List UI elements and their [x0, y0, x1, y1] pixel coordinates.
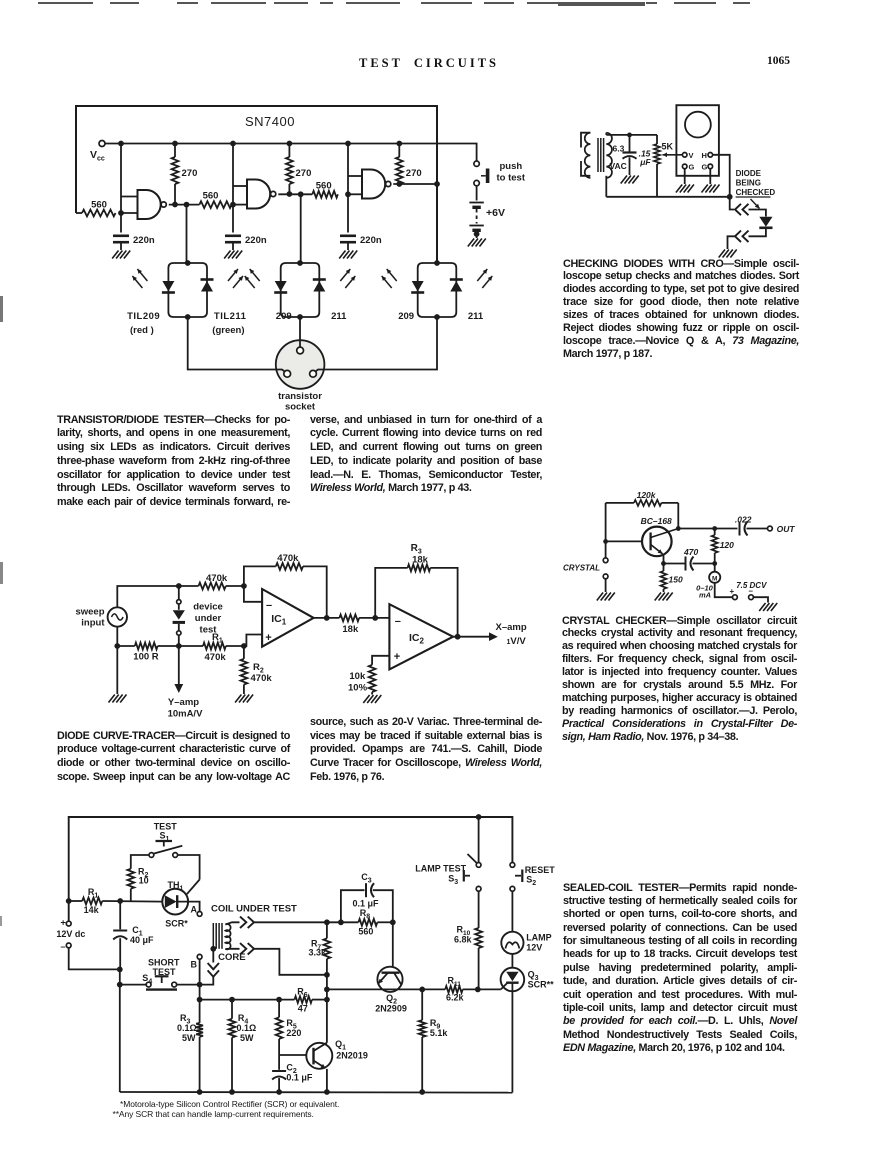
- terminal + 7.5V: [733, 595, 738, 600]
- wire: gate row (R7 to Q3): [327, 988, 445, 990]
- svg-text:V: V: [689, 151, 694, 160]
- node Q1 emitter bottom: [324, 1089, 330, 1095]
- wire: left ground vertical: [119, 969, 121, 1092]
- resistor 18k (series): [339, 615, 359, 622]
- svg-text:+6V: +6V: [486, 207, 505, 219]
- svg-text:150: 150: [669, 575, 683, 585]
- node source bottom: [114, 643, 120, 649]
- LED pair 2 frame: [281, 263, 320, 317]
- wire: S1 to gate: [178, 855, 200, 880]
- crystal test terminals: [603, 558, 608, 563]
- capacitor C1 40uF: [119, 901, 121, 929]
- svg-text:TIL211: TIL211: [214, 311, 247, 322]
- wire: gate1 output to stage2: [169, 204, 200, 206]
- node S4 right / B: [197, 982, 203, 988]
- terminal V: [682, 153, 687, 158]
- socket pin (collector): [310, 370, 317, 377]
- node R4 top: [229, 997, 235, 1003]
- wire: meter to + terminal: [715, 583, 733, 597]
- resistor 470k (input): [199, 583, 226, 590]
- node output divider: [712, 526, 717, 531]
- capacitor .15 uF: [629, 135, 631, 152]
- svg-text:209: 209: [398, 311, 414, 322]
- wire: ground rail (bottom): [120, 1091, 513, 1094]
- svg-text:10%: 10%: [348, 683, 368, 694]
- ground (diode): [719, 250, 725, 258]
- resistor R1 470k: [203, 643, 226, 650]
- node R1/C1/R2: [117, 898, 123, 904]
- wire: to IC1 plus: [244, 635, 262, 647]
- LED 3 emission arrows: [382, 276, 392, 288]
- wire: H to diode node: [713, 155, 730, 197]
- coil winding: [225, 924, 230, 949]
- socket pin (base): [297, 347, 304, 354]
- wire: bus row: [200, 999, 295, 1001]
- svg-text:device: device: [193, 602, 223, 613]
- svg-text:mA: mA: [699, 591, 711, 600]
- svg-text:+: +: [61, 918, 66, 928]
- page number 1065: [767, 55, 790, 67]
- svg-text:X–amp: X–amp: [496, 622, 527, 633]
- node R3 top: [197, 997, 203, 1003]
- node R6 right: [324, 997, 330, 1003]
- transformer T1 primary leads: [581, 133, 590, 148]
- node R8 left: [324, 919, 330, 925]
- svg-text:220n: 220n: [133, 235, 155, 246]
- svg-text:+: +: [394, 651, 400, 663]
- wire: IC2 plus input: [372, 656, 389, 665]
- capacitor C3 0.1uF (top): [341, 890, 365, 922]
- transformer T1 primary winding: [585, 133, 591, 178]
- switch S push-to-test: [474, 161, 479, 166]
- switch S1 TEST: [149, 853, 154, 858]
- ground (source): [109, 695, 115, 703]
- meter M 0-10 mA: [714, 564, 716, 572]
- coil bottom lead + clip: [225, 948, 239, 950]
- svg-text:5W: 5W: [182, 1033, 196, 1043]
- ground (supply): [759, 603, 765, 611]
- caption: sealed-coil tester: [563, 882, 797, 1056]
- wire: left vertical / base node: [605, 503, 607, 558]
- wire: IC2 output / X-amp: [453, 636, 489, 638]
- svg-text:–: –: [395, 616, 401, 628]
- caption: diode curve tracer col1: [57, 730, 290, 785]
- svg-text:12V: 12V: [526, 943, 542, 953]
- node C3 left leg: [338, 919, 344, 925]
- node R5 top: [276, 997, 282, 1003]
- device under test (diode + terminals): [178, 586, 180, 600]
- svg-text:2N2019: 2N2019: [336, 1051, 368, 1061]
- page header: TEST CIRCUITS: [359, 56, 499, 71]
- wire: LED2 to socket: [299, 317, 301, 347]
- node R1 left: [66, 898, 72, 904]
- resistor 270 (stage 2 pull-up): [288, 144, 290, 158]
- node stage1 Vcc tap: [118, 141, 124, 147]
- LED 2 emission arrows: [245, 276, 255, 288]
- caption: transistor/diode tester col1: [57, 414, 290, 510]
- node diode top: [727, 194, 733, 200]
- wire: LED pair 2 drop: [300, 194, 302, 263]
- switch S2 RESET: [510, 863, 515, 868]
- svg-text:5.1k: 5.1k: [430, 1028, 449, 1038]
- svg-text:18k: 18k: [342, 624, 359, 635]
- node R9 bottom: [419, 1089, 425, 1095]
- arrow to diode: [751, 199, 760, 209]
- svg-text:209: 209: [276, 311, 292, 322]
- resistor R3 18k (feedback): [375, 568, 407, 618]
- wire + clip to diode anode: [730, 197, 734, 210]
- svg-text:470k: 470k: [205, 652, 227, 663]
- wire + clip from diode cathode: [749, 229, 766, 237]
- svg-text:SCR**: SCR**: [528, 980, 555, 990]
- node IC1 output: [324, 615, 330, 621]
- svg-text:5K: 5K: [662, 142, 674, 152]
- node DUT bottom / Y-amp: [176, 643, 182, 649]
- wire: LED3 to socket: [315, 317, 437, 372]
- wire: Vcc rail: [105, 144, 477, 161]
- NAND gate 3 (SN7400): [362, 170, 385, 199]
- svg-text:120k: 120k: [637, 490, 657, 500]
- wire: source top to 470k: [117, 586, 198, 607]
- ground (stage 1 cap): [112, 251, 118, 259]
- Y-amp arrow: [178, 646, 180, 685]
- terminal G (right): [708, 164, 713, 169]
- wire: Q1 emitter to rail: [326, 1069, 328, 1092]
- svg-text:BC–168: BC–168: [641, 516, 672, 526]
- resistor R3 0.1ohm 5W: [199, 1000, 201, 1023]
- resistor 10k 10%: [369, 665, 376, 692]
- wire: R8 row: [327, 921, 358, 923]
- shield clip below B: [212, 949, 214, 963]
- LED pair 1 frame: [168, 263, 207, 317]
- resistor R6 47: [295, 996, 313, 1003]
- LED red 2 (209): [275, 281, 287, 292]
- transistor BC-168: [642, 527, 672, 557]
- node R10 bottom: [475, 987, 481, 993]
- svg-text:under: under: [195, 613, 222, 624]
- wire: B down to S4 row: [199, 959, 201, 999]
- svg-text:–: –: [749, 587, 754, 596]
- transformer T1 core: [597, 138, 599, 172]
- svg-text:470: 470: [683, 547, 698, 557]
- wire: gate2 output to stage3: [278, 193, 312, 195]
- svg-text:10k: 10k: [349, 671, 366, 682]
- node R4 bottom: [229, 1089, 235, 1095]
- svg-text:100 R: 100 R: [133, 652, 158, 663]
- wire: R7/collector vertical: [326, 922, 328, 938]
- ground (stage 2 cap): [224, 251, 230, 259]
- svg-text:S2: S2: [526, 875, 536, 888]
- wire: stage 3 input vertical from Vcc rail: [347, 144, 349, 195]
- svg-text:to test: to test: [497, 173, 526, 184]
- terminal + 12V: [66, 921, 71, 926]
- wire: Q1 base: [279, 1054, 306, 1056]
- node C1 bottom: [117, 967, 123, 973]
- svg-text:–: –: [61, 942, 66, 952]
- wire: emitter: [663, 554, 665, 564]
- svg-text:input: input: [81, 618, 105, 629]
- node IC1 plus input: [241, 643, 247, 649]
- terminal - 12V: [66, 943, 71, 948]
- pot wiper arrow: [663, 154, 683, 156]
- svg-text:220n: 220n: [360, 235, 382, 246]
- transistor Q2 2N2909: [392, 922, 394, 967]
- wire: collector: [677, 503, 679, 529]
- svg-text:TEST: TEST: [153, 967, 177, 977]
- svg-text:560: 560: [203, 191, 219, 202]
- LED pair 3 frame: [418, 263, 457, 317]
- resistor R11 6.2k: [445, 986, 463, 993]
- svg-text:560: 560: [316, 181, 332, 192]
- svg-text:1V/V: 1V/V: [507, 636, 527, 647]
- LED green 3 (211): [450, 281, 462, 292]
- node stage2 Vcc tap: [230, 141, 236, 147]
- wire: gate3 output to right rail: [393, 183, 437, 185]
- svg-text:Vcc: Vcc: [90, 149, 105, 163]
- wire: LED1 to socket: [188, 317, 285, 372]
- svg-text:G: G: [689, 163, 695, 172]
- node R3 bottom: [197, 1089, 203, 1095]
- capacitor 220n (stage 2): [232, 205, 234, 233]
- caption: crystal checker: [562, 615, 797, 744]
- svg-text:0.1Ω: 0.1Ω: [177, 1023, 197, 1033]
- lamp 12V: [511, 891, 513, 932]
- socket pin (emitter): [284, 370, 291, 377]
- ground (R2): [235, 695, 241, 703]
- svg-text:Y–amp: Y–amp: [168, 697, 199, 708]
- svg-text:push: push: [500, 161, 523, 172]
- svg-text:CHECKED: CHECKED: [736, 188, 776, 197]
- LED red 1 (TIL209): [162, 281, 174, 292]
- resistor R2 470k: [243, 646, 245, 659]
- wire: minus lead: [69, 948, 120, 970]
- capacitor C2 0.1uF (bottom): [278, 1055, 280, 1070]
- wire: IC1 out: [314, 617, 340, 619]
- svg-text:LAMP TEST: LAMP TEST: [415, 864, 466, 874]
- svg-text:LAMP: LAMP: [526, 933, 552, 943]
- diode being checked: [759, 217, 772, 227]
- ground (stage 3 cap): [339, 251, 345, 259]
- wire: bottom rail: [606, 196, 729, 198]
- resistor R4 0.1ohm 5W: [231, 1000, 233, 1019]
- wire: stage 1 gate input stubs: [121, 196, 138, 198]
- node Q2 base row: [324, 987, 330, 993]
- ground (150): [655, 593, 661, 601]
- svg-text:.022: .022: [735, 515, 752, 525]
- svg-text:14k: 14k: [84, 905, 100, 915]
- ground (10k): [363, 695, 369, 703]
- node IC2 output: [455, 634, 461, 640]
- wire: stage 2 input vertical from Vcc rail: [232, 144, 234, 205]
- capacitor 220n (stage 3): [347, 194, 349, 232]
- terminal - 7.5V: [749, 595, 754, 600]
- svg-text:OUT: OUT: [777, 524, 796, 534]
- svg-text:120: 120: [720, 540, 734, 550]
- ground (scope G right): [702, 185, 708, 193]
- NAND gate 1 (SN7400): [138, 190, 161, 219]
- svg-text:TIL209: TIL209: [127, 311, 160, 322]
- caption: checking diodes with CRO: [563, 258, 799, 361]
- node Vcc terminal: [99, 141, 105, 147]
- resistor R10 6.8k: [478, 891, 480, 928]
- terminal H: [708, 153, 713, 158]
- wire: LED pair 1 drop: [186, 205, 188, 263]
- svg-text:470k: 470k: [206, 573, 228, 584]
- wire: SN7400 feedback box top/left/right: [76, 106, 437, 263]
- resistor R8 560: [358, 919, 377, 926]
- caption: diode curve tracer col2: [310, 716, 542, 785]
- LED green 2 (211): [313, 281, 325, 292]
- wire: stage 2 gate input stubs: [233, 185, 247, 187]
- svg-text:+: +: [265, 632, 271, 644]
- resistor 150: [663, 564, 665, 572]
- wire: stage 3 gate input stubs: [348, 175, 362, 177]
- resistor R2 10: [130, 889, 132, 901]
- svg-text:R1: R1: [212, 632, 223, 645]
- CRT screen: [685, 112, 711, 138]
- ground (cap): [621, 176, 627, 184]
- svg-text:220: 220: [286, 1028, 301, 1038]
- svg-text:transistor: transistor: [278, 391, 322, 402]
- LED green 1 (TIL211): [201, 281, 213, 292]
- svg-text:6.2k: 6.2k: [446, 993, 465, 1003]
- ground (battery): [468, 239, 474, 247]
- node stage2 input junction: [230, 202, 236, 208]
- switch S4 SHORT TEST: [120, 984, 147, 986]
- svg-text:μF: μF: [639, 157, 651, 167]
- wire: feedback into 560 (stage1): [76, 212, 82, 214]
- node emitter: [661, 561, 666, 566]
- svg-text:+: +: [730, 587, 735, 596]
- wire: lower row: [116, 627, 118, 694]
- node S4 left: [117, 982, 123, 988]
- svg-text:B: B: [191, 960, 198, 970]
- resistor 270 (stage 3 pull-up): [398, 144, 400, 158]
- svg-text:211: 211: [468, 311, 484, 322]
- node stage1 input junction: [118, 210, 124, 216]
- svg-text:270: 270: [296, 168, 312, 179]
- capacitor 220n (stage 1): [120, 213, 122, 233]
- wire: Q3 cathode to rail: [511, 983, 513, 1093]
- svg-text:S3: S3: [448, 874, 458, 887]
- SCR TH1: [162, 889, 188, 915]
- svg-text:BEING: BEING: [736, 179, 761, 188]
- svg-text:270: 270: [182, 168, 198, 179]
- node gate3 out / right rail: [434, 181, 440, 187]
- resistor 100R: [135, 643, 158, 650]
- node LED1 branch: [184, 202, 190, 208]
- coil top lead + clip: [225, 922, 239, 924]
- node core/shield: [210, 946, 216, 952]
- transistor socket: [276, 340, 325, 389]
- svg-text:47: 47: [298, 1004, 308, 1014]
- node IC1 inverting input: [241, 583, 247, 589]
- transformer T1 secondary winding: [606, 133, 612, 178]
- ground (scope G left): [676, 185, 682, 193]
- node LED2 branch: [298, 191, 304, 197]
- svg-text:M: M: [712, 575, 717, 582]
- wire: +12V top rail: [69, 817, 513, 921]
- svg-text:socket: socket: [285, 402, 316, 413]
- oscilloscope box: [676, 105, 719, 176]
- caption: transistor/diode tester col2: [310, 414, 542, 497]
- svg-text:18k: 18k: [412, 555, 429, 566]
- potentiometer 5K: [656, 135, 658, 144]
- svg-text:0.1 μF: 0.1 μF: [286, 1073, 313, 1083]
- wire: stage 1 input vertical from Vcc rail: [120, 144, 122, 214]
- svg-text:10mA/V: 10mA/V: [168, 709, 204, 720]
- terminal B: [197, 954, 202, 959]
- transistor Q1 2N2019: [306, 1043, 332, 1069]
- svg-text:0.1Ω: 0.1Ω: [237, 1023, 257, 1033]
- svg-text:220n: 220n: [245, 235, 267, 246]
- svg-text:SHORT: SHORT: [148, 958, 180, 968]
- footnotes: [120, 1099, 339, 1109]
- node C2 bottom: [276, 1089, 282, 1095]
- node cap junction: [627, 133, 632, 138]
- svg-text:560: 560: [91, 200, 107, 211]
- svg-text:2N2909: 2N2909: [375, 1004, 407, 1014]
- core laminations: [212, 923, 214, 949]
- node stage3 Vcc tap: [345, 141, 351, 147]
- SCR Q3: [511, 954, 513, 968]
- svg-text:270: 270: [406, 168, 422, 179]
- svg-text:R11: R11: [448, 976, 462, 989]
- svg-text:C3: C3: [361, 872, 372, 885]
- resistor 470k (IC1 feedback): [244, 566, 276, 586]
- node R9 top: [419, 987, 425, 993]
- svg-text:H: H: [702, 151, 707, 160]
- ground (crystal): [597, 593, 603, 601]
- svg-text:10: 10: [139, 876, 149, 886]
- svg-text:0.1 μF: 0.1 μF: [353, 899, 380, 909]
- capacitor .022: [739, 522, 741, 536]
- NAND gate 2 (SN7400): [247, 180, 270, 209]
- terminal OUT: [768, 526, 773, 531]
- node S3 tap: [476, 814, 482, 820]
- svg-text:470k: 470k: [251, 673, 273, 684]
- node stage3 input junction: [345, 191, 351, 197]
- terminal A: [197, 912, 202, 917]
- terminal G (left): [682, 164, 687, 169]
- resistor 560 (stage 3 input): [312, 191, 338, 198]
- wire: secondary bottom to rail: [605, 176, 607, 197]
- svg-text:(green): (green): [212, 325, 244, 336]
- svg-text:560: 560: [358, 927, 373, 937]
- capacitor 470: [664, 563, 685, 565]
- resistor 270 (stage 1 pull-up): [174, 144, 176, 158]
- node meter top: [712, 561, 717, 566]
- svg-text:COIL UNDER TEST: COIL UNDER TEST: [211, 904, 297, 915]
- resistor 120: [712, 535, 718, 553]
- svg-text:CRYSTAL: CRYSTAL: [563, 564, 600, 573]
- LED red 3 (209): [412, 281, 424, 292]
- resistor 560 (stage 2 input): [199, 201, 231, 208]
- source: sweep input: [108, 607, 127, 626]
- resistor 560 (stage 1 input): [82, 210, 116, 217]
- op-amp IC2: [389, 604, 453, 669]
- svg-text:A: A: [191, 905, 198, 915]
- svg-text:G: G: [702, 163, 708, 172]
- op-amp IC1: [262, 589, 314, 647]
- svg-text:VAC: VAC: [610, 161, 627, 171]
- wire: secondary top rail: [605, 133, 607, 135]
- svg-text:SN7400: SN7400: [245, 114, 295, 129]
- resistor 120k: [606, 502, 634, 504]
- svg-text:6.8k: 6.8k: [454, 935, 473, 945]
- svg-text:DIODE: DIODE: [736, 169, 762, 178]
- svg-text:–: –: [266, 600, 272, 612]
